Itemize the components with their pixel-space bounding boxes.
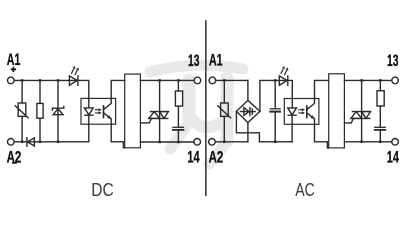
svg-text:A1: A1	[7, 51, 21, 69]
svg-text:14: 14	[387, 148, 399, 166]
svg-text:DC: DC	[91, 180, 114, 200]
svg-text:14: 14	[187, 148, 199, 166]
svg-text:AC: AC	[295, 180, 315, 200]
svg-text:A2: A2	[209, 148, 224, 166]
svg-text:13: 13	[188, 52, 199, 70]
svg-text:A1: A1	[209, 52, 223, 70]
svg-text:A2: A2	[7, 148, 22, 166]
svg-text:13: 13	[387, 52, 398, 70]
